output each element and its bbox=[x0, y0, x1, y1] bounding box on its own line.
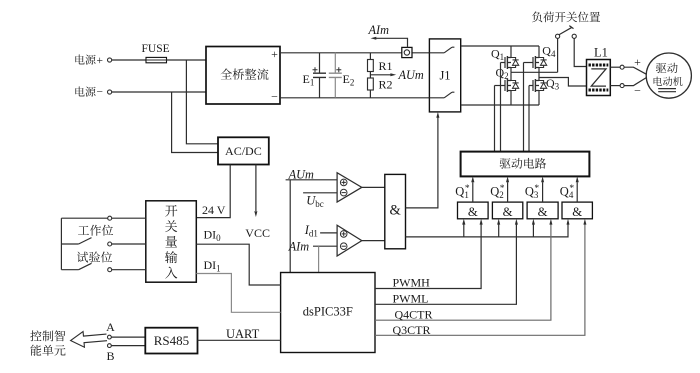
op-amp comparator U2 (voltage) bbox=[337, 173, 362, 202]
svg-text:Q1*: Q1* bbox=[455, 184, 470, 200]
svg-text:&: & bbox=[538, 205, 548, 219]
svg-text:AUm: AUm bbox=[398, 68, 424, 82]
wire - rail to AC/DC input bbox=[172, 92, 218, 153]
switch contact bottom inside J1 bbox=[429, 92, 454, 98]
arrow U7 output into 驱动电路 bbox=[541, 176, 544, 182]
wire AND output to J1 bbox=[406, 118, 438, 208]
svg-text:R1: R1 bbox=[379, 59, 393, 73]
terminal + motor bbox=[620, 65, 624, 69]
wire AUm branch to dsPIC bbox=[289, 180, 291, 273]
label 电源+ bbox=[75, 55, 95, 65]
motor underline marks bbox=[658, 89, 676, 92]
arrow Q4CTR into gate bbox=[549, 219, 552, 225]
arrow enable into gate4 bbox=[567, 219, 570, 225]
wire A to RS485 bbox=[111, 336, 145, 338]
svg-text:&: & bbox=[389, 203, 401, 219]
wire AIm into comparator bbox=[313, 245, 337, 247]
switch 工作位 blade bbox=[79, 238, 92, 244]
wire AUm into comparator bbox=[286, 179, 338, 181]
svg-text:AIm: AIm bbox=[368, 23, 390, 37]
wire gate U8 output up bbox=[576, 182, 578, 202]
label 控制智 bbox=[30, 330, 65, 341]
input block 开关量输入 box bbox=[146, 201, 197, 282]
wire bridge top rail bbox=[461, 45, 539, 47]
fuse FUSE bbox=[146, 57, 167, 62]
svg-text:Q4CTR: Q4CTR bbox=[395, 307, 433, 321]
wire 电源- to rectifier bbox=[112, 91, 206, 93]
svg-text:AIm: AIm bbox=[288, 240, 310, 254]
wire load switch to L1 bbox=[574, 38, 586, 66]
inductor L1 box bbox=[587, 60, 611, 96]
svg-text:VCC: VCC bbox=[245, 226, 270, 240]
wire AC/DC 24V output bbox=[196, 165, 230, 218]
terminal A bbox=[108, 335, 112, 339]
svg-text:B: B bbox=[106, 349, 114, 363]
terminal 电源+ bbox=[108, 58, 112, 62]
wire B to RS485 bbox=[111, 345, 145, 347]
wire + terminal to motor bbox=[624, 67, 646, 74]
mcu dsPIC33F box bbox=[281, 273, 375, 353]
arrow AIm left bbox=[371, 37, 377, 40]
arrow enable into U6 bbox=[497, 219, 500, 225]
terminal 工作位 bbox=[108, 242, 112, 246]
driver 驱动电路 box bbox=[461, 152, 590, 177]
arrow U5 output into 驱动电路 bbox=[471, 176, 474, 182]
op-amp comparator U3 (current) bbox=[337, 225, 362, 256]
converter AC/DC box bbox=[218, 137, 269, 164]
wire bottom DC rail bbox=[280, 97, 429, 99]
switch contact top inside J1 bbox=[429, 47, 454, 53]
wire 电源+ to fuse bbox=[112, 59, 146, 61]
wire gate U5 output up bbox=[472, 182, 474, 202]
wire AIm branch to dsPIC bbox=[318, 246, 320, 272]
label 负荷开关位置 bbox=[532, 12, 600, 23]
svg-text:+: + bbox=[97, 55, 104, 67]
and-gate U8 (&) Q4 bbox=[562, 202, 592, 219]
wire gate Q4 down to drive circuit bbox=[523, 63, 525, 152]
svg-text:+: + bbox=[634, 55, 641, 69]
label 电源- bbox=[75, 87, 95, 97]
svg-text:+: + bbox=[271, 47, 278, 61]
wire right mid-node to L1 bbox=[539, 78, 587, 87]
wire Ubc into comparator bbox=[303, 192, 337, 194]
wire gate Q2 down to drive circuit bbox=[494, 86, 496, 152]
wire enable riser into U6 bbox=[498, 224, 500, 237]
wire DI1 to dsPIC bbox=[196, 274, 280, 313]
wire Q4CTR bbox=[375, 224, 551, 321]
terminal top switch bbox=[108, 216, 112, 220]
transistor Q1 bbox=[501, 46, 519, 72]
terminal B bbox=[108, 344, 112, 348]
wire AC/DC VCC output bbox=[255, 165, 257, 212]
arrow PWMH into gate bbox=[480, 219, 483, 225]
wire 试验位 to box bbox=[112, 269, 146, 271]
wire left mid-node rail bbox=[511, 71, 558, 73]
svg-text:&: & bbox=[572, 205, 582, 219]
core strips inside L1 bbox=[589, 64, 609, 67]
arrow AUm tap bbox=[390, 73, 396, 76]
wire PWML bbox=[375, 224, 516, 305]
wire Id1 into comparator bbox=[320, 232, 337, 234]
and-gate U7 (&) Q3 bbox=[527, 202, 558, 219]
wire AUm tap arrow bbox=[370, 74, 392, 76]
label 驱动 in motor bbox=[656, 63, 678, 73]
wire gate Q1 down to drive circuit bbox=[500, 63, 502, 152]
wire comparator1 output to AND bbox=[362, 186, 385, 188]
svg-text:J1: J1 bbox=[439, 68, 450, 82]
svg-text:−: − bbox=[271, 90, 278, 104]
arrow PWML into gate bbox=[515, 219, 518, 225]
arrow enable into U5 bbox=[462, 219, 465, 225]
svg-text:RS485: RS485 bbox=[154, 333, 189, 348]
svg-text:dsPIC33F: dsPIC33F bbox=[303, 305, 353, 319]
transceiver RS485 box bbox=[145, 328, 197, 354]
wire DI0 to dsPIC bbox=[196, 244, 280, 285]
svg-text:Q3CTR: Q3CTR bbox=[393, 323, 431, 337]
arrow Q3CTR into gate bbox=[583, 219, 586, 225]
wire 工作位 to box bbox=[112, 243, 146, 245]
label 全桥整流 bbox=[221, 68, 269, 79]
capacitor E1 bbox=[313, 53, 327, 98]
wire common bus switches bbox=[60, 218, 62, 270]
contactor J1 box bbox=[429, 39, 460, 112]
arrow into J1 bottom bbox=[436, 112, 439, 118]
arrow VCC down bbox=[254, 211, 257, 217]
wire top DC rail bbox=[280, 52, 402, 54]
svg-text:−: − bbox=[97, 86, 104, 98]
current sensor on DC rail bbox=[402, 47, 412, 57]
terminal - motor bbox=[620, 84, 624, 88]
wire enable riser into U5 bbox=[463, 224, 465, 237]
svg-text:R2: R2 bbox=[379, 78, 393, 92]
wire gate Q3 down to drive circuit bbox=[528, 86, 530, 152]
wire Q3CTR bbox=[375, 224, 585, 336]
wire PWMH bbox=[375, 224, 481, 289]
arrow U6 output into 驱动电路 bbox=[506, 176, 509, 182]
label 试验位 bbox=[77, 251, 112, 262]
Z symbol inside L1 bbox=[591, 69, 606, 86]
wire - terminal to motor bbox=[624, 78, 646, 86]
svg-text:Q3*: Q3* bbox=[525, 184, 540, 200]
terminal 电源- bbox=[108, 90, 112, 94]
wire bridge bottom rail bbox=[461, 104, 539, 106]
capacitor E2 bbox=[329, 53, 342, 98]
label 驱动电路 bbox=[500, 158, 546, 169]
wire AND enable rail bbox=[406, 224, 569, 237]
label 工作位 bbox=[78, 225, 113, 236]
wire common top to box bbox=[61, 217, 145, 219]
resistor R2 bbox=[368, 78, 374, 90]
wire enable riser into U7 bbox=[532, 224, 534, 237]
svg-text:L1: L1 bbox=[594, 46, 608, 60]
and-gate U6 (&) Q2 bbox=[492, 202, 522, 219]
wire + rail to AC/DC input bbox=[186, 60, 218, 144]
label 开关量输入 vertical bbox=[165, 205, 177, 279]
svg-text:PWMH: PWMH bbox=[393, 276, 431, 290]
svg-text:Q4*: Q4* bbox=[560, 184, 575, 200]
wire 试验位 left stub bbox=[61, 269, 78, 271]
svg-text:−: − bbox=[634, 84, 641, 98]
wire 工作位 left stub bbox=[61, 243, 78, 245]
rectifier 全桥整流 box bbox=[206, 47, 280, 105]
wire inside fuse bbox=[146, 59, 167, 61]
wire L1 to - terminal bbox=[610, 85, 620, 87]
wire gate U7 output up bbox=[542, 182, 544, 202]
resistor R1 bbox=[369, 53, 371, 98]
svg-text:&: & bbox=[468, 205, 478, 219]
transistor Q4 bbox=[524, 46, 547, 78]
arrow U8 output into 驱动电路 bbox=[576, 176, 579, 182]
arrow hollow to 控制智能单元 bbox=[70, 330, 108, 349]
wire fuse to rectifier bbox=[167, 59, 207, 61]
switch 试验位 blade bbox=[79, 263, 92, 269]
wire left mid-node up to load switch bbox=[557, 38, 559, 72]
transistor Q2 bbox=[495, 72, 519, 105]
wire gate U6 output up bbox=[507, 182, 509, 202]
switch 负荷开关 blade and contacts bbox=[556, 34, 560, 38]
svg-text:&: & bbox=[503, 205, 513, 219]
terminal 试验位 bbox=[108, 268, 112, 272]
wire UART bbox=[198, 339, 281, 341]
svg-text:AC/DC: AC/DC bbox=[225, 144, 262, 158]
transistor Q3 bbox=[529, 78, 547, 106]
arrow enable into U7 bbox=[532, 219, 535, 225]
wire top DC rail sensor to J1 bbox=[412, 52, 429, 54]
svg-text:UART: UART bbox=[226, 327, 260, 341]
wire L1 to + terminal bbox=[610, 66, 620, 68]
and-gate U5 (&) Q1 bbox=[458, 202, 489, 219]
svg-text:FUSE: FUSE bbox=[142, 43, 170, 55]
wire comparator2 output to AND bbox=[362, 240, 385, 242]
label 电动机 in motor bbox=[654, 77, 683, 86]
svg-text:A: A bbox=[106, 320, 115, 334]
svg-text:24 V: 24 V bbox=[202, 203, 226, 217]
label 能单元 bbox=[30, 345, 65, 356]
and-gate U4 (&) box bbox=[385, 174, 406, 248]
svg-text:Q2*: Q2* bbox=[490, 184, 505, 200]
motor 驱动电动机 circle bbox=[646, 53, 691, 98]
svg-text:PWML: PWML bbox=[393, 292, 429, 306]
wire AIm sensor arrow bbox=[374, 38, 408, 47]
